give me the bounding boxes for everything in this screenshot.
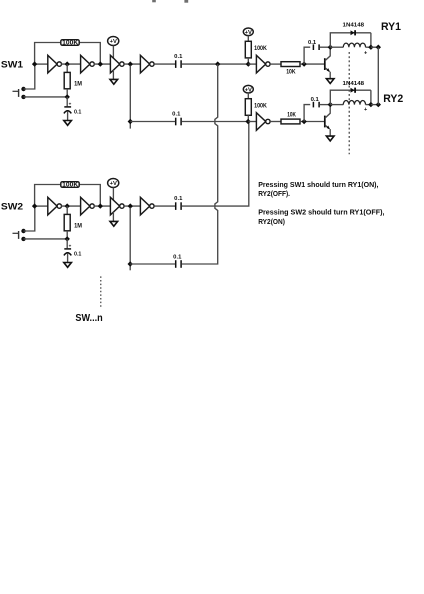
resistor 1M SW1 <box>64 72 70 88</box>
wire stub below row B node <box>129 122 131 129</box>
node RY2 driver input <box>245 119 250 124</box>
switch SW1 terminal 1 <box>21 87 25 91</box>
cropped text remnant marks at top edge <box>152 0 156 2</box>
wire capacitor to ground <box>67 253 69 262</box>
svg-text:Pressing SW2 should turn RY1(O: Pressing SW2 should turn RY1(OFF), <box>258 208 384 217</box>
resistor 100K pull-up RY2 <box>245 99 251 116</box>
ground of inverter 3 SW1 <box>110 79 118 84</box>
node base RY1 <box>301 61 306 66</box>
wire cap to collector node <box>319 104 330 106</box>
svg-text:100K: 100K <box>254 102 267 109</box>
wire node to inverter <box>248 121 256 123</box>
inverter 4 of SW2 chain <box>140 197 154 215</box>
wire relay loop top <box>330 90 371 104</box>
wire to relay coil <box>330 104 343 106</box>
wire inv4 to capacitor <box>154 63 175 65</box>
node after inverter 3 SW2 <box>128 203 133 208</box>
inverter U6 RY2 driver <box>256 113 270 131</box>
wire switch to RC node <box>24 96 68 98</box>
capacitor 0.1 coupling row A <box>176 60 181 68</box>
wire feedback right <box>79 43 100 65</box>
wire to supply rail <box>371 104 378 106</box>
wire inv2 to inv3 <box>94 63 111 65</box>
inverter 4 of SW1 chain <box>140 55 154 73</box>
svg-text:+: + <box>69 243 72 248</box>
ground emitter Q1 <box>326 79 334 84</box>
node collector RY2 <box>328 102 333 107</box>
svg-text:+V: +V <box>110 39 117 45</box>
wire +V to 100K <box>247 93 249 99</box>
wire inv3 to inv4 <box>124 205 140 207</box>
wire +V to inverter <box>112 188 114 201</box>
svg-text:0.1: 0.1 <box>74 251 82 257</box>
svg-text:0.1: 0.1 <box>174 54 183 60</box>
wire supply rail between relays <box>377 47 379 104</box>
pushbutton switch SW2 <box>13 231 19 239</box>
wire relay loop right <box>370 33 372 47</box>
node coil right RY2 <box>368 102 373 107</box>
wire +V to inverter <box>112 46 114 59</box>
svg-text:+V: +V <box>245 87 252 93</box>
wire +V to 100K <box>247 36 249 42</box>
capacitor 0.1 debounce SW1 <box>64 101 72 113</box>
node row D tap <box>128 261 133 266</box>
node base RY2 <box>301 119 306 124</box>
resistor 10K base RY2 <box>281 119 300 124</box>
svg-text:Pressing SW1 should turn RY1(O: Pressing SW1 should turn RY1(ON), <box>258 180 378 189</box>
wire inverter to 10K <box>270 121 281 123</box>
wire SW1 inverted tap down <box>129 66 131 122</box>
inverter 3 of SW2 chain (powered) <box>110 197 124 215</box>
inverter U5 RY1 driver <box>256 55 270 73</box>
wire relay loop top <box>330 33 371 47</box>
wire cap to node B (crosses vertical) <box>182 121 248 123</box>
switch SW1 terminal 2 <box>21 95 25 99</box>
resistor 100K feedback SW1 <box>61 40 79 47</box>
node supply rail RY1 <box>376 45 381 50</box>
wire input to inverter <box>35 205 48 207</box>
node coil right RY1 <box>368 45 373 50</box>
node SW1 input <box>32 61 37 66</box>
svg-text:0.1: 0.1 <box>311 97 320 103</box>
wire inv1 to inv2 <box>61 63 80 65</box>
dashed mechanical link line of relays <box>348 52 350 154</box>
wire inv2 to inv3 <box>94 205 111 207</box>
transistor Q2 NPN <box>325 105 330 137</box>
wire relay loop right <box>370 90 372 104</box>
node SW2 input <box>32 203 37 208</box>
wire 1M to RC node <box>66 89 68 97</box>
wire 10K to base <box>300 121 324 123</box>
dotted continuation line for more stages <box>100 276 102 308</box>
svg-text:SW...n: SW...n <box>75 313 102 324</box>
ground below capacitor SW2 <box>64 263 72 268</box>
wire input to inverter <box>35 63 48 65</box>
wire switch to input node <box>24 206 35 231</box>
svg-text:1M: 1M <box>74 222 82 229</box>
wire row D cap up to node A (hops rows B and C) <box>182 64 218 264</box>
svg-text:1N4148: 1N4148 <box>343 81 365 87</box>
wire to capacitor <box>66 239 68 248</box>
wire cap to node A and RY1 driver <box>182 63 249 65</box>
node RY1 driver input <box>246 61 251 66</box>
switch SW2 terminal 1 <box>21 229 25 233</box>
node after inverter 3 SW1 <box>128 61 133 66</box>
wire stub below row D node <box>129 264 131 270</box>
wire to supply rail <box>371 46 378 48</box>
capacitor 0.1 debounce SW2 <box>64 243 72 255</box>
svg-text:+: + <box>69 101 72 106</box>
wire 100K to input node <box>247 58 249 64</box>
inverter 3 of SW1 chain (powered) <box>110 55 124 73</box>
capacitor 0.1 speedup RY1 <box>313 44 319 50</box>
wire capacitor to ground <box>67 111 69 120</box>
ground of inverter 3 SW2 <box>110 221 118 226</box>
svg-text:0.1: 0.1 <box>172 112 181 118</box>
svg-text:100K: 100K <box>62 182 79 189</box>
relay coil RY1 <box>343 43 365 47</box>
svg-text:SW2: SW2 <box>1 201 23 212</box>
svg-text:+V: +V <box>245 30 252 36</box>
diode D2 1N4148 flyback <box>351 88 356 93</box>
wire base node up to cap <box>304 47 310 64</box>
svg-text:0.1: 0.1 <box>308 40 317 46</box>
node supply rail RY2 <box>376 102 381 107</box>
diode D1 1N4148 flyback <box>351 30 356 35</box>
wire row B node to cap <box>130 121 175 123</box>
svg-text:10K: 10K <box>287 112 296 119</box>
svg-text:0.1: 0.1 <box>173 255 182 261</box>
capacitor 0.1 coupling row C <box>176 202 181 210</box>
switch SW2 terminal 2 <box>21 237 25 241</box>
+V supply of RY2 driver <box>243 85 253 93</box>
wire feedback left <box>35 185 61 207</box>
node after inverter 1 SW1 <box>65 61 70 66</box>
node RC junction SW1 <box>65 94 70 99</box>
wire inverter to 10K <box>270 63 281 65</box>
svg-text:0.1: 0.1 <box>174 196 183 202</box>
+V supply of inverter 3 SW1 <box>108 37 119 46</box>
capacitor 0.1 speedup RY2 <box>313 102 319 108</box>
inverter 2 of SW2 chain <box>81 197 95 215</box>
svg-text:RY2(ON): RY2(ON) <box>258 217 285 226</box>
wire inv4 to capacitor <box>154 205 175 207</box>
wire base node up to cap <box>304 105 310 122</box>
wire SW2 direct up to node B <box>182 122 249 207</box>
svg-text:100K: 100K <box>62 40 79 47</box>
wire 100K to input node <box>247 115 249 121</box>
inverter 1 of SW2 chain <box>48 197 62 215</box>
inverter 2 of SW1 chain <box>81 55 95 73</box>
relay coil RY2 <box>343 101 365 105</box>
capacitor 0.1 coupling row D <box>176 260 181 268</box>
node after inverter 2 SW2 <box>98 203 103 208</box>
resistor 1M SW2 <box>64 214 70 230</box>
+V supply of RY1 driver <box>243 28 253 36</box>
resistor 10K base RY1 <box>281 62 300 67</box>
resistor 100K feedback SW2 <box>61 182 79 189</box>
wire to relay coil <box>330 46 343 48</box>
svg-text:1M: 1M <box>74 80 82 87</box>
node row B tap <box>128 119 133 124</box>
node collector RY1 <box>328 45 333 50</box>
svg-text:0.1: 0.1 <box>74 109 82 115</box>
wire node to inverter <box>248 63 256 65</box>
svg-text:RY2: RY2 <box>383 93 403 105</box>
capacitor 0.1 coupling row B <box>176 118 181 126</box>
wire coil to node <box>366 104 371 106</box>
wire inv1 to inv2 <box>61 205 80 207</box>
svg-text:SW1: SW1 <box>1 59 24 70</box>
wire node to 1M <box>66 64 68 72</box>
svg-text:1N4148: 1N4148 <box>343 23 365 29</box>
wire node to 1M <box>66 206 68 214</box>
inverter 1 of SW1 chain <box>48 55 62 73</box>
wire coil to node <box>366 46 371 48</box>
svg-text:RY2(OFF).: RY2(OFF). <box>258 189 290 198</box>
wire inv3 to inv4 <box>124 63 140 65</box>
ground emitter Q2 <box>326 136 334 141</box>
node after inverter 1 SW2 <box>65 203 70 208</box>
+V supply of inverter 3 SW2 <box>108 179 119 188</box>
node A (RY1 drive sum) <box>215 61 220 66</box>
svg-text:RY1: RY1 <box>381 21 401 33</box>
wire cap to collector node <box>319 46 330 48</box>
wire feedback left <box>35 43 61 65</box>
transistor Q1 NPN <box>325 47 330 78</box>
ground below capacitor SW1 <box>64 121 72 126</box>
wire 10K to base <box>300 63 324 65</box>
wire SW2 inverted tap down <box>129 208 131 265</box>
wire switch to input node <box>24 64 35 89</box>
pushbutton switch SW1 <box>13 89 19 97</box>
wire to capacitor <box>66 97 68 106</box>
svg-text:10K: 10K <box>286 68 296 75</box>
wire switch to RC node <box>24 238 68 240</box>
node after inverter 2 SW1 <box>98 61 103 66</box>
svg-text:+V: +V <box>110 181 117 187</box>
node RC junction SW2 <box>65 236 70 241</box>
resistor 100K pull-up RY1 <box>245 41 251 58</box>
wire inverter to ground <box>112 212 114 222</box>
wire feedback right <box>79 185 100 207</box>
wire row D node to cap <box>130 263 175 265</box>
wire 1M to RC node <box>66 231 68 239</box>
svg-text:100K: 100K <box>254 45 267 52</box>
wire inverter to ground <box>112 70 114 80</box>
